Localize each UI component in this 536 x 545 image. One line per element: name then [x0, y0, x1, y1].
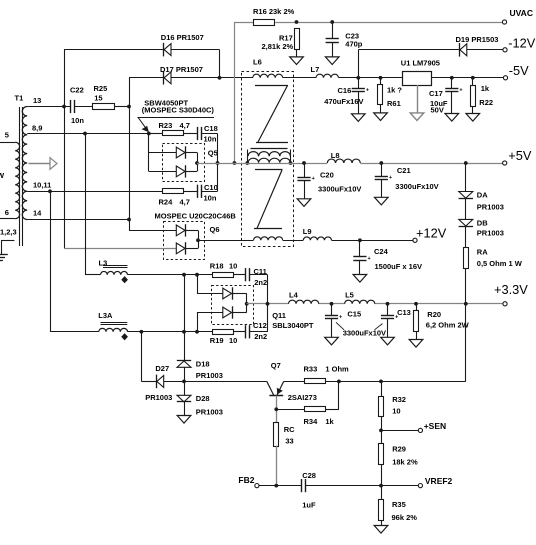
ground (R61) — [374, 113, 388, 121]
wire L3 to R18 — [128, 274, 213, 276]
wire C21 to ground — [381, 179, 383, 197]
wire D17 anode vertical x129 — [129, 78, 131, 231]
wire Q5 input vertical — [148, 134, 150, 172]
diode Q6 lower — [176, 243, 185, 254]
junction Q11 upper stub — [195, 273, 199, 277]
svg-text:PR1003: PR1003 — [477, 228, 504, 237]
wire R34 vertical — [338, 381, 340, 409]
wire C16 to ground — [358, 92, 360, 114]
L6 bottom winding — [254, 237, 283, 241]
svg-text:10: 10 — [392, 407, 400, 416]
svg-text:L5: L5 — [345, 291, 354, 300]
wire D16 cathode — [171, 49, 220, 51]
resistor R32 — [379, 397, 384, 417]
svg-text:C20: C20 — [320, 170, 334, 179]
wire RC to FB2 line — [276, 446, 278, 486]
diode Q6 upper — [176, 225, 185, 236]
wire top rail to R16 — [234, 22, 254, 24]
svg-text:C16: C16 — [338, 86, 352, 95]
svg-text:C22: C22 — [70, 85, 84, 94]
terminal UVAC — [502, 20, 506, 24]
wire -12V from L7 node — [358, 50, 360, 78]
resistor RA — [464, 248, 469, 269]
svg-text:470p: 470p — [345, 39, 363, 48]
svg-text:1500uF x 16V: 1500uF x 16V — [375, 262, 423, 271]
junction D27 branch — [140, 330, 144, 334]
L6 top winding — [253, 74, 283, 78]
wire pin 8,9 — [27, 133, 149, 135]
svg-text:Q5: Q5 — [208, 148, 218, 157]
resistor R22 — [471, 86, 476, 107]
diode D28 — [177, 395, 191, 402]
wire R17 to ground — [296, 50, 298, 57]
svg-text:10,11: 10,11 — [33, 181, 51, 190]
wire Q11 cathode join — [232, 293, 247, 295]
diode D17 — [163, 71, 165, 85]
svg-text:FB2: FB2 — [238, 475, 254, 485]
wire DB to RA — [465, 226, 467, 248]
svg-text:10n: 10n — [71, 116, 84, 125]
wire pins 1,2,3 — [1, 240, 14, 242]
junction C18/C10 on +5V — [216, 161, 220, 165]
svg-text:U1 LM7905: U1 LM7905 — [401, 59, 440, 68]
svg-text:1k: 1k — [325, 417, 334, 426]
wire +5V to DA — [465, 163, 467, 192]
svg-text:1k ?: 1k ? — [387, 85, 402, 94]
diode Q11 upper — [223, 288, 232, 299]
svg-text:UVAC: UVAC — [510, 8, 533, 18]
wire D28 to ground — [184, 402, 186, 416]
svg-text:R34: R34 — [304, 417, 319, 426]
wire L6 to L7 — [283, 77, 316, 79]
wire C20 upper — [304, 163, 306, 177]
L3A polarity diamond — [122, 334, 128, 340]
svg-text:L8: L8 — [331, 151, 340, 160]
junction DA branch — [464, 161, 468, 165]
svg-text:PR1003: PR1003 — [196, 371, 223, 380]
junction C21 — [379, 161, 383, 165]
junction D16/D17 — [218, 76, 222, 80]
capacitor C18 — [197, 127, 199, 140]
svg-text:0,5 Ohm 1 W: 0,5 Ohm 1 W — [477, 259, 523, 268]
svg-text:DB: DB — [477, 219, 488, 228]
svg-text:D16 PR1507: D16 PR1507 — [161, 33, 204, 42]
wire D19 to terminal — [467, 49, 503, 51]
transformer T1 secondary winding — [22, 107, 27, 220]
wire C15 upper — [331, 304, 333, 316]
svg-text:14: 14 — [33, 208, 42, 217]
junction L3A node — [182, 330, 186, 334]
svg-text:R17: R17 — [279, 33, 293, 42]
wire C17 upper — [451, 78, 453, 89]
terminal -12V — [503, 48, 507, 52]
junction R34 tap — [337, 380, 341, 384]
wire +5V rail — [197, 163, 247, 165]
svg-text:R22: R22 — [479, 98, 493, 107]
svg-text:13: 13 — [33, 96, 41, 105]
capacitor C12 — [245, 325, 247, 338]
svg-text:PR1003: PR1003 — [196, 407, 223, 416]
junction pin14 — [127, 218, 131, 222]
wire FB2 to C28 — [259, 485, 302, 487]
resistor R20 — [414, 311, 419, 332]
junction VREF2 — [379, 484, 383, 488]
terminal +5V — [503, 161, 507, 165]
svg-text:Q6: Q6 — [210, 225, 220, 234]
wire Q6 out to L6 winding — [198, 240, 254, 242]
wire R20 upper — [416, 304, 418, 311]
svg-text:10: 10 — [229, 336, 237, 345]
svg-text:+SEN: +SEN — [424, 421, 446, 431]
wire C23 to ground — [332, 42, 334, 57]
diode D19 — [459, 43, 461, 57]
junction R32 top — [379, 380, 383, 384]
saturable reactor L6 box — [242, 72, 294, 247]
svg-text:L6: L6 — [253, 58, 262, 67]
svg-text:-12V: -12V — [508, 36, 535, 51]
wire D18 to junction — [184, 367, 186, 381]
wire U1 out to terminal — [431, 77, 503, 79]
wire +SEN — [381, 430, 418, 432]
wire Q7 emitter to R33 — [284, 381, 304, 383]
wire 10,11 branch to L3A — [50, 191, 52, 331]
svg-text:RC: RC — [284, 425, 295, 434]
svg-text:SBL3040PT: SBL3040PT — [272, 321, 314, 330]
resistor R19 — [213, 330, 234, 335]
wire C17 to ground — [451, 92, 453, 114]
dual diode Q5 box — [163, 144, 205, 182]
inductor L7 — [316, 74, 339, 78]
junction RC/FB2 — [274, 484, 278, 488]
wire R33 to +3.3V corner — [325, 381, 466, 383]
svg-text:D28: D28 — [196, 394, 210, 403]
svg-text:10n: 10n — [204, 135, 217, 144]
voltage regulator U1 LM7905 — [403, 72, 432, 86]
junction Q5 output — [195, 161, 199, 165]
wire RA to +3.3V — [465, 269, 467, 304]
svg-text:+5V: +5V — [508, 148, 532, 163]
ground (R35) — [374, 526, 388, 534]
wire Q5 cathode join — [186, 152, 198, 154]
wire R32 to SEN node — [381, 416, 383, 444]
diode D16 — [163, 43, 165, 57]
svg-text:T1: T1 — [15, 93, 24, 102]
wire D-node to Q7 — [184, 381, 267, 383]
terminal +12V — [413, 238, 417, 242]
svg-text:1uF: 1uF — [302, 500, 316, 509]
inductor L3A — [99, 328, 128, 331]
wire C21 upper — [381, 163, 383, 176]
resistor R34 — [305, 407, 326, 412]
diode Q11 lower — [223, 307, 232, 318]
svg-text:C10: C10 — [204, 183, 218, 192]
capacitor C11 — [245, 268, 247, 281]
svg-text:RA: RA — [477, 247, 488, 256]
wire L7 to U1 — [339, 77, 403, 79]
wire R29 to VREF2 node — [381, 465, 383, 500]
wire C18 to +5V node — [201, 133, 217, 135]
svg-text:(MOSPEC S30D40C): (MOSPEC S30D40C) — [142, 106, 215, 115]
svg-text:50V: 50V — [431, 105, 444, 114]
transformer T1 core — [19, 107, 21, 246]
wire R35 to ground — [381, 521, 383, 526]
svg-text:C12: C12 — [253, 321, 267, 330]
svg-text:L7: L7 — [311, 65, 320, 74]
capacitor C16 — [352, 88, 365, 90]
junction L6 winding right — [289, 161, 293, 165]
wire VREF2 — [381, 485, 418, 487]
ground (C16) — [352, 114, 366, 122]
wire C16 upper — [358, 78, 360, 89]
capacitor C15 — [325, 315, 338, 317]
annotation arrow SBW4050PT — [138, 117, 215, 119]
wire R61 to ground — [380, 104, 382, 113]
svg-text:PR1003: PR1003 — [477, 202, 504, 211]
junction 8,9 to L3 — [83, 132, 87, 136]
wire R22 top — [472, 78, 474, 86]
svg-text:D17 PR1507: D17 PR1507 — [160, 65, 203, 74]
ground (C24) — [353, 275, 367, 283]
wire L3 node to L3A node — [184, 275, 186, 332]
junction C23 — [330, 20, 334, 24]
dual diode Q6 box — [164, 222, 205, 260]
svg-text:R20: R20 — [427, 310, 441, 319]
svg-text:2n2: 2n2 — [254, 332, 267, 341]
wire D27 branch — [141, 332, 143, 382]
junction RA/+3.3V — [464, 302, 468, 306]
wire C20 to ground — [304, 180, 306, 198]
junction C11/C12 node — [266, 302, 270, 306]
svg-text:C15: C15 — [347, 310, 361, 319]
wire D27 to junction — [164, 381, 184, 383]
svg-text:R23: R23 — [159, 121, 173, 130]
ground (R17) — [290, 57, 304, 65]
inductor L8 — [327, 159, 360, 163]
junction 10,11 to L3A — [48, 189, 52, 193]
ground (R22) — [466, 114, 480, 122]
svg-text:L9: L9 — [303, 227, 312, 236]
wire C13 to ground — [387, 319, 389, 338]
wire L3A node to D18 — [184, 332, 186, 361]
L3 polarity diamond — [122, 277, 128, 283]
wire C28 to divider — [306, 485, 381, 487]
ground (C23) — [325, 57, 339, 65]
svg-text:L3: L3 — [99, 259, 108, 268]
wire C10 to +5V node — [201, 191, 217, 193]
svg-text:470uFx16V: 470uFx16V — [324, 97, 363, 106]
junction R61 — [379, 76, 383, 80]
junction D18/D27/Q7 — [182, 380, 186, 384]
svg-text:R61: R61 — [387, 99, 401, 108]
wire pin 14 — [27, 219, 129, 221]
wire +3.3V rail — [247, 303, 289, 305]
svg-text:4,7: 4,7 — [180, 198, 190, 207]
svg-text:+12V: +12V — [416, 225, 447, 240]
svg-text:6: 6 — [5, 208, 9, 217]
wire C15 to ground — [331, 319, 333, 338]
svg-text:C13: C13 — [397, 308, 411, 317]
svg-text:R35: R35 — [392, 500, 406, 509]
svg-text:3300uFx10V: 3300uFx10V — [395, 182, 438, 191]
svg-text:R24: R24 — [159, 198, 174, 207]
svg-text:2SAI273: 2SAI273 — [288, 393, 317, 402]
junction C20 — [302, 161, 306, 165]
junction R20 — [414, 302, 418, 306]
junction feedback on +5V — [233, 161, 237, 165]
wire R24 to C10 — [184, 191, 198, 193]
diode DB — [459, 219, 473, 226]
svg-text:D18: D18 — [196, 360, 210, 369]
inductor L3 — [101, 271, 128, 274]
wire R18 to C11 — [233, 274, 246, 276]
svg-text:+: + — [312, 176, 315, 182]
wire junction to D28 — [184, 381, 186, 395]
svg-text:D27: D27 — [155, 364, 169, 373]
junction L6 winding left — [245, 161, 249, 165]
svg-text:33: 33 — [285, 436, 293, 445]
wire R23 to C18 — [184, 133, 198, 135]
wire pin 6 — [0, 218, 15, 220]
svg-text:8,9: 8,9 — [32, 124, 42, 133]
callout line to C13 — [375, 324, 383, 330]
svg-text:C18: C18 — [204, 124, 218, 133]
wire pin 10,11 — [27, 191, 162, 193]
inductor L4 — [289, 300, 319, 304]
svg-text:D19 PR1503: D19 PR1503 — [456, 35, 499, 44]
svg-text:R19: R19 — [210, 336, 224, 345]
ground (R20) — [409, 340, 423, 348]
resistor R61 — [378, 85, 383, 105]
wire R34 to base node — [276, 409, 304, 411]
junction R19 stub — [195, 330, 199, 334]
wire R61 top — [380, 78, 382, 85]
transformer T1 primary winding — [15, 142, 19, 219]
resistor R16 — [254, 20, 275, 26]
junction 8,9 to Q5 — [147, 132, 151, 136]
svg-text:R29: R29 — [392, 445, 406, 454]
wire C13 upper — [387, 304, 389, 316]
capacitor C13 — [381, 315, 394, 317]
diode D18 — [177, 360, 191, 362]
resistor R23 — [163, 131, 184, 136]
svg-text:15: 15 — [94, 93, 102, 102]
svg-text:10: 10 — [229, 262, 237, 271]
svg-text:R32: R32 — [392, 395, 406, 404]
junction R17 — [295, 20, 299, 24]
L6 lower core Z — [255, 169, 283, 171]
terminal VREF2 — [418, 484, 422, 488]
resistor R24 — [163, 189, 184, 194]
ground (C13) — [381, 337, 395, 345]
wire pin 5 — [0, 142, 15, 144]
wire R20 to ground — [416, 332, 418, 340]
wire 8,9 branch to L3 — [85, 134, 87, 275]
svg-text:-5V: -5V — [509, 63, 529, 78]
capacitor C10 — [197, 185, 199, 198]
wire C11 to corner — [250, 274, 268, 276]
wire D16 anode — [64, 49, 164, 51]
svg-text:R16 23k 2%: R16 23k 2% — [253, 7, 295, 16]
wire C24 to ground — [359, 260, 361, 274]
wire Q5 anode stub upper — [149, 152, 177, 154]
resistor RC — [274, 423, 279, 447]
wire D17 cathode to L6 — [171, 77, 253, 79]
terminal -5V — [503, 76, 507, 80]
resistor R25 — [93, 104, 115, 110]
terminal +SEN — [418, 428, 422, 432]
svg-text:+: + — [366, 87, 369, 93]
wire L3A to R19 — [128, 331, 213, 333]
svg-text:C28: C28 — [302, 471, 316, 480]
svg-text:10n: 10n — [204, 194, 217, 203]
wire to Q6 upper anode — [129, 230, 176, 232]
ground (C21) — [375, 197, 389, 205]
wire R16 to UVAC — [275, 22, 502, 24]
wire C22 to R25 — [74, 106, 92, 108]
ground (D28) — [177, 416, 191, 424]
svg-text:MOSPEC U20C20C46B: MOSPEC U20C20C46B — [155, 212, 237, 221]
callout line to C15 — [336, 322, 344, 330]
wire R19 to C12 — [233, 331, 246, 333]
L6 middle control winding — [247, 150, 249, 164]
svg-text:Q7: Q7 — [271, 361, 281, 370]
svg-text:1k: 1k — [481, 84, 490, 93]
svg-text:C17: C17 — [429, 89, 443, 98]
svg-text:+: + — [389, 175, 392, 181]
svg-text:+3.3V: +3.3V — [494, 282, 528, 297]
svg-text:R33: R33 — [304, 365, 318, 374]
terminal FB2 — [255, 484, 259, 488]
svg-text:Q11: Q11 — [272, 311, 286, 320]
svg-text:1,2,3: 1,2,3 — [0, 228, 17, 237]
L6 upper core Z — [255, 85, 288, 87]
svg-text:C24: C24 — [374, 247, 389, 256]
terminal +3.3V — [503, 302, 507, 306]
ground (U1) — [410, 113, 424, 121]
wire DA to DB — [465, 198, 467, 219]
junction L3 node — [182, 273, 186, 277]
svg-text:3300uFx10V: 3300uFx10V — [343, 328, 386, 337]
svg-text:5: 5 — [5, 131, 9, 140]
wire R22 to ground — [472, 106, 474, 113]
wire L9 to terminal — [332, 240, 413, 242]
capacitor C28 — [301, 479, 303, 492]
junction C24 — [358, 238, 362, 242]
resistor R33 — [305, 379, 326, 384]
capacitor C21 — [375, 176, 388, 178]
wire R25 to node — [114, 106, 129, 108]
wire D16 branch vertical x64 — [64, 50, 66, 249]
ground (C15) — [325, 337, 339, 345]
junction base/R34 — [274, 407, 278, 411]
junction Q6 output — [196, 238, 200, 242]
svg-text:R25: R25 — [94, 84, 108, 93]
diode Q5 upper — [176, 147, 185, 158]
wire Q7 base stem — [276, 396, 278, 422]
wire D17 anode — [129, 77, 164, 79]
inductor L5 — [345, 300, 375, 304]
inductor L3A core bars — [101, 322, 128, 324]
diode DA — [459, 192, 473, 199]
wire 8,9 to R23 — [149, 133, 163, 135]
svg-text:VREF2: VREF2 — [425, 476, 453, 486]
ground (primary earth) — [0, 254, 8, 256]
diode D27 — [156, 375, 158, 389]
wire pin 13 to C22 — [27, 106, 70, 108]
wire Q5 anode stub lower — [149, 171, 177, 173]
svg-text:6,2 Ohm 2W: 6,2 Ohm 2W — [426, 321, 470, 330]
junction +SEN — [379, 429, 383, 433]
